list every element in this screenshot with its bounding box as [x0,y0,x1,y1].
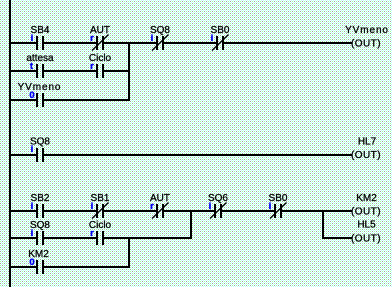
contact AUT NC [92,35,109,51]
svg-text:r: r [150,201,154,212]
label YVmeno contact [18,82,62,93]
wire N1 AUT to SQ8 [104,42,156,44]
svg-text:i: i [31,144,34,155]
wire N1 SB0 to coil YVmeno [224,42,352,44]
label Ciclo [89,53,112,64]
wire N1 branch attesa: rail to attesa [11,70,36,72]
wire N3 branch KM2: rail to contact [11,266,36,268]
contact SQ8 net2 [36,148,44,162]
type marker SQ6 input i [209,201,212,212]
wire N3 AUT to SQ6 [164,210,214,212]
svg-text:r: r [90,61,94,72]
type marker YVmeno output o [29,90,34,101]
svg-text:SB2: SB2 [31,193,50,204]
type marker SQ8 net3 input i [31,228,34,239]
contact Ciclo net3 [96,231,104,245]
wire N3 SQ6 to SB0 [222,210,274,212]
wire N3 rail to SB2 [11,210,36,212]
type marker KM2 output o [29,257,34,268]
svg-text:i: i [211,33,214,44]
wire N1 branch YVmeno: rail to contact [11,99,36,101]
svg-text:i: i [31,201,34,212]
wire N1 branch junction x=128 [128,42,130,101]
wire N1 branch YVmeno to junction [44,99,130,101]
svg-text:YVmeno: YVmeno [18,82,62,93]
svg-text:KM2: KM2 [356,193,377,204]
svg-text:HL7: HL7 [358,137,377,148]
wire N3 branch to coil HL5 [324,237,352,239]
label SB4 [31,25,50,36]
label SB0 net3 [269,193,288,204]
contact SB2 [36,204,44,218]
svg-text:r: r [90,33,94,44]
svg-text:i: i [31,33,34,44]
label Ciclo net3 [89,220,112,231]
type marker SQ8 net2 input i [31,144,34,155]
type marker SB4 input i [31,33,34,44]
wire N3 junction x=190 [190,210,192,239]
wire N1 SB4 to AUT [44,42,96,44]
type marker Ciclo net3 relay r [90,228,94,239]
label attesa [26,53,54,64]
type marker Ciclo relay r [90,61,94,72]
svg-text:YVmeno: YVmeno [345,25,389,36]
svg-text:0: 0 [29,90,34,101]
svg-text:HL5: HL5 [357,220,376,231]
type marker SB2 input i [31,201,34,212]
contact SB0 NC [212,35,229,51]
wire N1 rail to SB4 [11,42,36,44]
wire N3 SB2 to SB1 [44,210,96,212]
coil KM2 (OUT) [351,193,381,218]
label KM2 contact [28,249,49,260]
svg-text:(OUT): (OUT) [351,39,381,50]
wire N2 SQ8 to coil HL7 [44,154,352,156]
wire N3 SB1 to AUT [104,210,156,212]
contact AUT net3 NC [152,203,169,219]
wire N3 branch KM2 to junction [44,266,130,268]
svg-text:SB4: SB4 [31,25,50,36]
svg-text:r: r [90,228,94,239]
coil YVmeno (OUT) [345,25,389,50]
contact SQ8 net3 [36,231,44,245]
wire N1 SQ8 to SB0 [164,42,216,44]
wire N3 branch Ciclo to junction [104,237,192,239]
label SQ8 [150,25,170,36]
label SQ8 net3 [30,220,50,231]
wire N1 branch Ciclo to junction [104,70,130,72]
wire N3 branch SQ8: rail to SQ8 [11,237,36,239]
svg-text:i: i [151,33,154,44]
label AUT [90,25,110,36]
contact SB0 net3 NC [270,203,287,219]
type marker SB0 net3 input i [269,201,272,212]
wire N3 junction x=322 to HL5 [322,210,324,239]
svg-text:(OUT): (OUT) [351,207,381,218]
contact SB4 [36,36,44,50]
contact KM2 feedback [36,260,44,274]
type marker AUT net3 relay r [150,201,154,212]
label SB0 [211,25,230,36]
left power rail [9,0,11,287]
label SQ8 net2 [30,137,50,148]
label AUT net3 [150,193,170,204]
contact SQ6 NC [210,203,227,219]
type marker SB0 input i [211,33,214,44]
contact attesa [36,64,44,78]
svg-text:SB0: SB0 [269,193,288,204]
svg-text:i: i [269,201,272,212]
type marker SQ8 input i [151,33,154,44]
wire N1 branch attesa to Ciclo [44,70,96,72]
svg-text:(OUT): (OUT) [351,150,381,161]
svg-text:(OUT): (OUT) [351,234,381,245]
svg-text:i: i [31,228,34,239]
svg-text:SB1: SB1 [91,193,110,204]
type marker SB1 input i [91,201,94,212]
contact YVmeno feedback [36,93,44,107]
contact Ciclo [96,64,104,78]
coil HL5 (OUT) [351,220,381,245]
wire N2 rail to SQ8 [11,154,36,156]
type marker AUT relay r [90,33,94,44]
label SB1 [91,193,110,204]
type marker attesa timer t [30,61,34,72]
label SQ6 [208,193,228,204]
wire N3 junction x=128 [128,237,130,268]
wire N3 branch SQ8 to Ciclo [44,237,96,239]
wire N3 SB0 to coil KM2 [282,210,352,212]
svg-text:SB0: SB0 [211,25,230,36]
svg-text:i: i [91,201,94,212]
svg-text:i: i [209,201,212,212]
label SB2 [31,193,50,204]
svg-text:0: 0 [29,257,34,268]
contact SQ8 NC [152,35,169,51]
contact SB1 NC [92,203,109,219]
coil HL7 (OUT) [351,137,381,162]
